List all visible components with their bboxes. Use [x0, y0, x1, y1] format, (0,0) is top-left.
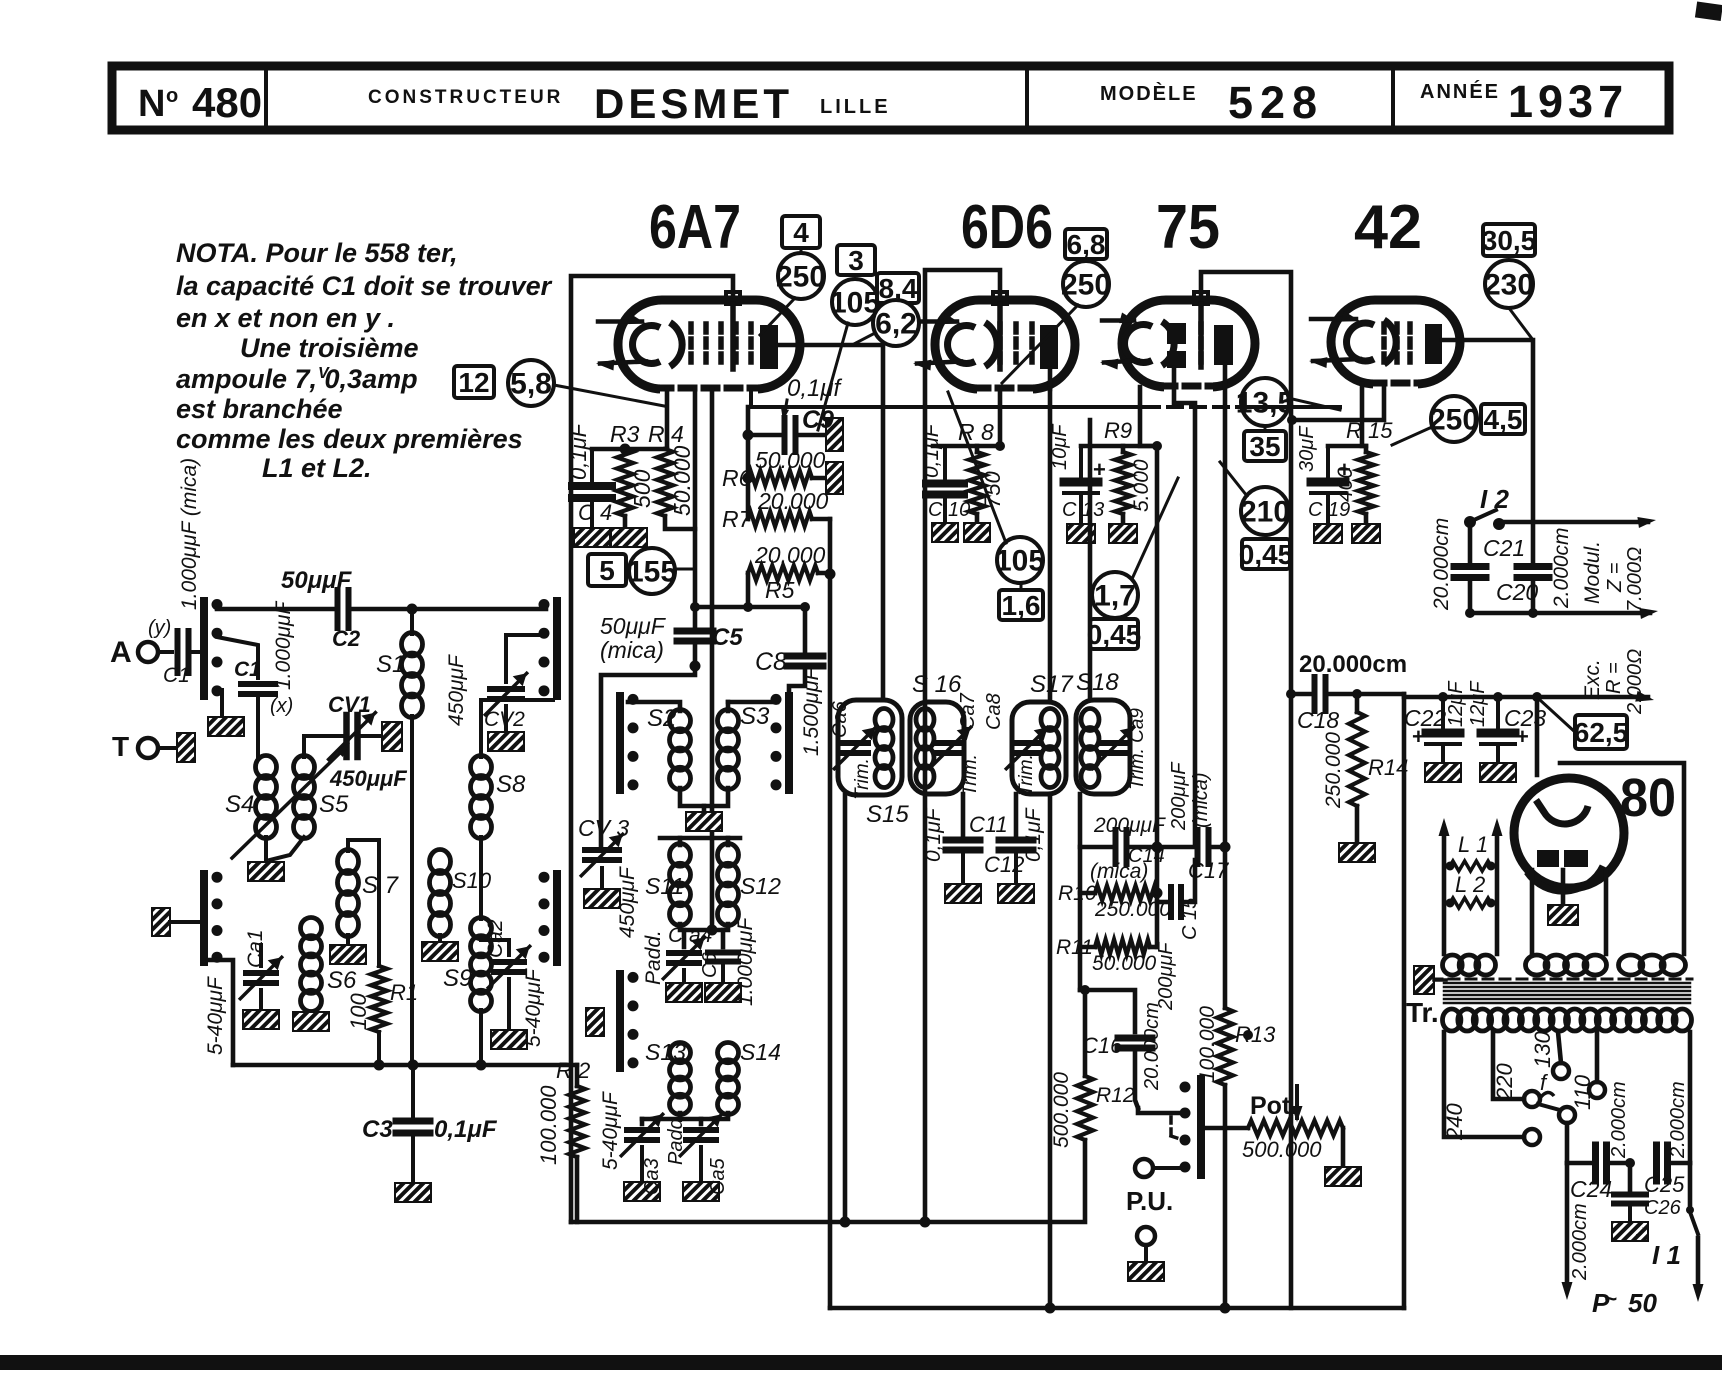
wire 75 diode pin down [1174, 368, 1195, 845]
svg-text:105: 105 [995, 545, 1045, 578]
switch I2 [1464, 516, 1476, 528]
wire 42 grid [1292, 384, 1384, 420]
tube 6D6 envelope [935, 300, 1075, 389]
callout box 6,8 [1065, 229, 1107, 259]
svg-text:T: T [112, 731, 129, 762]
svg-text:Ca8: Ca8 [983, 693, 1005, 730]
svg-text:1.500μμF: 1.500μμF [800, 666, 823, 756]
callout circle 1,7 [1092, 572, 1138, 618]
capacitor C8 1.500μμF [803, 607, 808, 652]
transformer secondary winding [1443, 1009, 1461, 1031]
svg-text:42: 42 [1354, 193, 1422, 262]
callout circle 210 [1241, 487, 1289, 535]
svg-text:50.000: 50.000 [1092, 952, 1157, 975]
svg-text:S8: S8 [496, 771, 526, 798]
capacitor C14 200μμF mica [1080, 845, 1113, 850]
svg-text:S11: S11 [645, 873, 684, 899]
wire 6D6 screen pin down [933, 389, 1000, 446]
resistor R6 50.000 [748, 471, 812, 486]
callout circle 250 (42 screen) [1431, 396, 1477, 442]
scan mark top-right [1695, 2, 1722, 21]
wire 80 plate feed [1535, 697, 1540, 775]
svg-text:480: 480 [192, 79, 262, 126]
svg-text:+: + [1093, 457, 1106, 482]
svg-text:3: 3 [848, 245, 864, 276]
rectifier tube 80 envelope [1514, 778, 1624, 888]
svg-text:S1: S1 [376, 651, 405, 678]
svg-text:S18: S18 [1076, 669, 1119, 696]
callout circle 105 (6A7 screen) [832, 279, 878, 325]
coil S7 [338, 850, 359, 874]
tap 110 [1595, 1032, 1600, 1082]
svg-text:50μμF: 50μμF [600, 613, 667, 639]
svg-text:7.000Ω: 7.000Ω [1624, 547, 1646, 612]
resistor R12 500.000 [1083, 990, 1088, 1076]
coil S11 [678, 838, 683, 845]
svg-text:C5: C5 [712, 624, 743, 651]
wire heater line 0,1uF [751, 389, 1145, 407]
wire lower horizontal 1065 [233, 1063, 577, 1068]
svg-text:C2: C2 [332, 626, 361, 651]
wire bus A bottom [571, 1140, 1085, 1222]
switch bar (lower right) [553, 874, 561, 962]
svg-text:80: 80 [1620, 768, 1676, 828]
choke L1 L2 arrows [1442, 830, 1447, 954]
wire 6A7 frame [571, 276, 733, 1222]
svg-text:CV 3: CV 3 [578, 815, 629, 841]
svg-text:L 1: L 1 [1458, 832, 1488, 857]
svg-text:C18: C18 [1297, 707, 1339, 733]
junction S11 S12 bottom [680, 924, 728, 930]
svg-text:210: 210 [1240, 496, 1290, 529]
svg-text:20.000cm: 20.000cm [1299, 651, 1407, 678]
trimmer Ca5 Padd [699, 1119, 704, 1124]
capacitor C26 [1628, 1163, 1633, 1190]
svg-text:C 4: C 4 [578, 500, 612, 525]
svg-text:R11: R11 [1056, 936, 1093, 959]
resistor R15 400 [1364, 446, 1369, 452]
wire C16 branch [1080, 990, 1135, 1032]
resistor R8 750 [975, 446, 980, 452]
terminal PU ground [1137, 1227, 1155, 1245]
svg-text:S2: S2 [647, 705, 676, 732]
coil S10 [430, 850, 451, 874]
svg-text:Padd.: Padd. [642, 930, 665, 985]
coil S4 [256, 756, 277, 779]
switch bar (osc bottom left) [616, 974, 624, 1068]
callout box 12 [454, 366, 494, 398]
bottom border bar [0, 1355, 1722, 1370]
svg-text:S17: S17 [1030, 671, 1074, 698]
svg-text:N: N [138, 83, 165, 125]
svg-text:240: 240 [1442, 1103, 1467, 1141]
svg-text:5-40μμF: 5-40μμF [204, 976, 227, 1055]
svg-text:50.000: 50.000 [755, 447, 826, 473]
svg-text:(mica): (mica) [1090, 860, 1148, 883]
svg-text:S5: S5 [319, 791, 349, 818]
svg-text:4,5: 4,5 [1484, 404, 1523, 435]
svg-text:250: 250 [776, 261, 826, 294]
wire 75 cathode rail down [1155, 446, 1160, 947]
trimmer CV1 450μμF [304, 736, 344, 757]
wire mains arrow 2 [1696, 1238, 1701, 1292]
svg-text:comme les deux premières: comme les deux premières [176, 424, 523, 454]
mains selector lever f [1524, 1091, 1540, 1107]
svg-text:R5: R5 [765, 577, 795, 603]
svg-text:2.000Ω: 2.000Ω [1624, 649, 1646, 715]
ground under S4 S5 [264, 837, 268, 860]
svg-text:200μμF: 200μμF [1168, 761, 1190, 831]
svg-text:1937: 1937 [1508, 76, 1628, 127]
capacitor C21 20.000cm [1468, 522, 1473, 562]
IF coil block S17 [1012, 702, 1066, 794]
svg-text:1.000μμF (mica): 1.000μμF (mica) [178, 458, 201, 610]
resistor R9 5.000 [1121, 446, 1126, 452]
svg-text:CONSTRUCTEUR: CONSTRUCTEUR [368, 87, 563, 108]
svg-text:Trim.: Trim. [1016, 754, 1037, 796]
wire mains arrow 1 [1565, 1163, 1570, 1290]
svg-text:R3: R3 [610, 421, 640, 447]
coil S3 [728, 700, 777, 705]
svg-text:S12: S12 [740, 873, 781, 899]
callout box 0,45 (S18) [1090, 619, 1138, 649]
svg-text:1,6: 1,6 [1002, 590, 1041, 621]
svg-text:220: 220 [1492, 1063, 1517, 1101]
capacitor C17 200μμF mica [1157, 845, 1196, 850]
svg-text:+: + [1516, 724, 1529, 749]
capacitor C1 (antenna, position y) [175, 631, 181, 673]
svg-text:130: 130 [1530, 1031, 1555, 1068]
svg-text:C22: C22 [1404, 705, 1446, 731]
capacitor C18 20.000cm [1291, 692, 1311, 697]
capacitor C5 50μμF [677, 628, 713, 635]
svg-text:230: 230 [1484, 269, 1534, 302]
svg-text:Ca5: Ca5 [707, 1157, 729, 1195]
svg-text:13,5: 13,5 [1236, 387, 1294, 420]
tuning arrow S4 S5 [232, 747, 346, 858]
svg-text:V: V [318, 365, 330, 382]
ground under S2 S3 [680, 788, 728, 806]
svg-text:Trim.: Trim. [960, 754, 981, 796]
svg-text:Ca2: Ca2 [484, 919, 507, 958]
svg-text:est branchée: est branchée [176, 394, 343, 424]
svg-text:400: 400 [1334, 467, 1357, 502]
svg-text:S4: S4 [225, 791, 254, 818]
svg-text:2.000cm: 2.000cm [1667, 1081, 1689, 1159]
capacitor C2 50μμF [335, 590, 341, 628]
svg-text:I 1: I 1 [1652, 1240, 1681, 1270]
svg-text:C12: C12 [984, 852, 1024, 877]
svg-text:1,7: 1,7 [1094, 580, 1136, 613]
svg-text:250: 250 [1061, 269, 1111, 302]
oscillator block S15 Ca6 [838, 700, 902, 795]
wire 6A7 grid pins down [693, 389, 698, 627]
capacitor C16 20.000cm [1118, 1035, 1152, 1042]
callout box 3 [837, 245, 875, 275]
resistor R2 100.000 [575, 1065, 580, 1086]
wire modulation output bus [1470, 611, 1650, 616]
svg-text:75: 75 [1156, 193, 1220, 262]
svg-text:C20: C20 [1496, 579, 1538, 605]
svg-text:S6: S6 [327, 967, 357, 994]
callout circle 250 (6A7 anode) [778, 253, 824, 299]
capacitor C13 10μF electrolytic [1079, 446, 1083, 478]
svg-text:10μF: 10μF [1049, 423, 1071, 470]
wire S7-R1 top [346, 840, 350, 851]
svg-text:L 2: L 2 [1455, 872, 1485, 897]
svg-text:C1: C1 [234, 658, 261, 681]
svg-text:0,45: 0,45 [1239, 539, 1294, 570]
svg-text:6A7: 6A7 [649, 193, 741, 262]
svg-text:750: 750 [980, 471, 1005, 508]
svg-text:100: 100 [346, 993, 371, 1030]
capacitor C6 1.000μμF [721, 930, 726, 947]
capacitor C24 2.000cm [1567, 1161, 1592, 1166]
wire 42 anode to C20 [1442, 340, 1533, 562]
resistor R14 250.000 [1355, 694, 1360, 712]
capacitor C20 2.000cm [1517, 563, 1549, 570]
svg-text:20.000: 20.000 [754, 542, 826, 568]
svg-text:20.000cm: 20.000cm [1141, 1002, 1163, 1091]
svg-text:5.000: 5.000 [1130, 459, 1153, 512]
wire HT line to 80 [1404, 695, 1648, 700]
wire S18 bottom rail [1078, 794, 1083, 990]
svg-text:en x et non en y .: en x et non en y . [176, 303, 395, 333]
svg-text:Exc.: Exc. [1581, 659, 1604, 700]
svg-text:0,1μF: 0,1μF [920, 423, 943, 478]
svg-text:528: 528 [1228, 77, 1324, 128]
resistor R7 20.000 [748, 512, 812, 527]
svg-text:(mica): (mica) [1190, 772, 1212, 828]
svg-text:Padd.: Padd. [665, 1113, 687, 1165]
terminal PU hot [1135, 1159, 1153, 1177]
svg-text:450μμF: 450μμF [616, 866, 639, 938]
transformer primary windings [1443, 955, 1463, 975]
svg-text:62,5: 62,5 [1574, 717, 1629, 748]
svg-text:+: + [1412, 724, 1425, 749]
capacitor C12 0,1μF [1014, 794, 1019, 835]
trimmer Ca3 [642, 1117, 680, 1122]
wire 80 frame [1560, 763, 1684, 954]
svg-text:250.000: 250.000 [1322, 732, 1345, 809]
wire top left bus [217, 607, 334, 612]
callout box 62,5 [1575, 715, 1627, 749]
svg-text:P.U.: P.U. [1126, 1186, 1173, 1216]
potentiometer Pot 500.000 [1203, 1126, 1248, 1131]
svg-text:ANNÉE: ANNÉE [1420, 80, 1500, 103]
svg-text:CV1: CV1 [328, 692, 371, 717]
callout box 30,5 [1483, 224, 1535, 256]
trimmer Ca4 Padd [682, 930, 687, 947]
coil S1 [410, 609, 414, 634]
wire S17 down to bus B [1048, 794, 1053, 1308]
svg-text:C 13: C 13 [1062, 499, 1104, 521]
svg-text:Z =: Z = [1604, 563, 1626, 593]
coil S12 [726, 838, 731, 845]
svg-text:250: 250 [1429, 404, 1479, 437]
svg-text:o: o [166, 85, 178, 107]
svg-text:500.000: 500.000 [1242, 1137, 1322, 1162]
svg-text:20.000: 20.000 [757, 488, 829, 514]
svg-text:R =: R = [1603, 662, 1625, 694]
svg-text:(x): (x) [270, 695, 293, 717]
wire 6D6 anode down [1048, 369, 1053, 389]
svg-text:Pot.: Pot. [1250, 1092, 1297, 1120]
tap 130 [1558, 1032, 1561, 1063]
svg-text:R9: R9 [1104, 418, 1132, 443]
svg-text:5-40μμF: 5-40μμF [522, 968, 545, 1047]
svg-text:S3: S3 [740, 703, 770, 730]
switch I1 [1688, 1032, 1693, 1163]
svg-text:20.000cm: 20.000cm [1430, 518, 1453, 611]
wire 6A7 anode line [778, 345, 883, 700]
svg-text:1.000μμF: 1.000μμF [272, 600, 295, 690]
resistor R1 100 [371, 966, 387, 1032]
svg-text:Ca6: Ca6 [829, 700, 851, 738]
capacitor C1 (position x) [217, 637, 258, 678]
svg-text:C21: C21 [1483, 535, 1525, 561]
svg-text:Tr.: Tr. [1406, 997, 1439, 1028]
svg-text:R 8: R 8 [958, 419, 994, 445]
svg-text:0,45: 0,45 [1087, 619, 1142, 650]
svg-text:C 10: C 10 [928, 499, 970, 521]
capacitor C22 12μF electrolytic [1441, 697, 1445, 729]
svg-text:(mica): (mica) [600, 637, 664, 663]
svg-text:5: 5 [599, 555, 615, 586]
svg-text:5,8: 5,8 [510, 368, 552, 401]
coil S8 [471, 756, 492, 779]
svg-text:6,8: 6,8 [1067, 229, 1106, 260]
switch bar (osc top left) [616, 696, 624, 790]
svg-text:50: 50 [1628, 1288, 1657, 1318]
svg-text:DESMET: DESMET [594, 80, 793, 127]
svg-text:450μμF: 450μμF [329, 766, 407, 791]
coil S13 [670, 1043, 691, 1063]
svg-text:I 2: I 2 [1480, 484, 1509, 514]
wire bus B bottom [830, 1306, 1404, 1311]
svg-text:100.000: 100.000 [536, 1085, 561, 1165]
svg-text:30μF: 30μF [1296, 425, 1318, 472]
coil S5 [294, 756, 315, 779]
capacitor C23 12μF electrolytic [1496, 697, 1500, 729]
svg-text:la capacité C1 doit se trouver: la capacité C1 doit se trouver [176, 271, 553, 301]
transformer chassis tab [1414, 966, 1434, 994]
svg-text:Modul.: Modul. [1581, 541, 1604, 604]
svg-text:450μμF: 450μμF [445, 654, 468, 726]
callout circle 250 (6D6 anode) [1063, 261, 1109, 307]
svg-text:Ca7: Ca7 [957, 692, 979, 730]
svg-text:0,1μF: 0,1μF [1022, 807, 1045, 862]
resistor R10 250.000 [1095, 886, 1157, 901]
svg-text:2.000cm: 2.000cm [1608, 1081, 1630, 1159]
callout box 1,6 [999, 590, 1043, 620]
svg-text:R12: R12 [1096, 1084, 1135, 1107]
svg-text:S 16: S 16 [912, 671, 962, 698]
svg-text:C3: C3 [362, 1116, 393, 1143]
IF coil block S16 [910, 702, 964, 794]
svg-text:R7: R7 [722, 506, 753, 532]
svg-text:500.000: 500.000 [1050, 1072, 1073, 1148]
svg-text:C1: C1 [163, 664, 190, 687]
svg-text:500: 500 [629, 469, 655, 508]
switch bar (lower left) [200, 874, 208, 962]
svg-text:S15: S15 [866, 801, 909, 828]
tube 42 envelope [1331, 300, 1460, 384]
wire 75 cathode down [1140, 387, 1157, 446]
svg-text:1.000μμF: 1.000μμF [734, 916, 757, 1006]
svg-text:CV2: CV2 [484, 708, 525, 731]
wire S18 top up [1088, 420, 1093, 700]
svg-text:R6: R6 [722, 465, 752, 491]
tube 6A7 envelope [618, 300, 800, 389]
coil S14 [718, 1043, 739, 1063]
resistor R11 50.000 [1095, 940, 1150, 955]
resistor R4 50.000 [657, 449, 673, 516]
svg-text:C6: C6 [699, 952, 721, 978]
svg-text:50.000: 50.000 [669, 445, 695, 516]
capacitor C11 0,1μF [961, 794, 966, 835]
capacitor C19 30μF electrolytic [1326, 446, 1330, 478]
trimmer CV3 450μμF [585, 847, 619, 853]
callout circle 230 [1485, 260, 1533, 308]
callout circle 155 [629, 548, 675, 594]
svg-text:A: A [110, 636, 132, 669]
svg-text:R 4: R 4 [648, 421, 684, 447]
svg-text:C24: C24 [1570, 1176, 1612, 1202]
callout box 5 [588, 554, 626, 586]
callout box 4,5 [1481, 404, 1525, 434]
svg-text:6D6: 6D6 [961, 193, 1053, 262]
capacitor C9 [748, 433, 781, 438]
svg-text:R1: R1 [390, 980, 418, 1005]
callout box 35 [1244, 431, 1286, 461]
svg-text:6,2: 6,2 [875, 308, 917, 341]
svg-text:110: 110 [1570, 1074, 1595, 1110]
svg-text:~: ~ [1604, 1286, 1617, 1311]
svg-text:100.000: 100.000 [1196, 1006, 1219, 1082]
svg-text:0,1μf: 0,1μf [787, 375, 843, 402]
wire screen rail [746, 407, 751, 519]
svg-text:12μF: 12μF [1467, 680, 1489, 727]
svg-text:35: 35 [1249, 431, 1280, 462]
trimmer CV2 450μμF [506, 635, 542, 650]
svg-text:C26: C26 [1644, 1197, 1682, 1219]
capacitor C10 0,1μF [943, 446, 947, 481]
svg-text:12: 12 [458, 367, 489, 398]
callout box 4 [782, 216, 820, 248]
wire 42 frame right [1402, 694, 1407, 1308]
svg-text:R 15: R 15 [1346, 418, 1393, 443]
wire R3 R4 C4 top [592, 447, 667, 452]
svg-text:0,1μF: 0,1μF [434, 1116, 498, 1143]
capacitor C4 0,1μF [590, 449, 594, 484]
svg-text:MODÈLE: MODÈLE [1100, 82, 1198, 105]
svg-text:200μμF: 200μμF [1093, 814, 1166, 837]
callout circle 5,8 [508, 360, 554, 406]
capacitor C25 2.000cm [1653, 1145, 1660, 1181]
callout box 8,4 [877, 273, 919, 303]
svg-text:(y): (y) [148, 617, 171, 639]
wire mid vertical 830 [828, 519, 833, 1308]
wire 42 cathode [1360, 384, 1365, 446]
resistor R3 500 [617, 449, 633, 516]
tap 240 [1444, 1032, 1524, 1137]
svg-text:0,1μF: 0,1μF [922, 807, 945, 862]
svg-text:C8: C8 [755, 648, 787, 676]
svg-text:S13: S13 [645, 1039, 686, 1065]
tube 75 envelope [1122, 300, 1255, 387]
svg-text:L1 et L2.: L1 et L2. [262, 453, 372, 483]
